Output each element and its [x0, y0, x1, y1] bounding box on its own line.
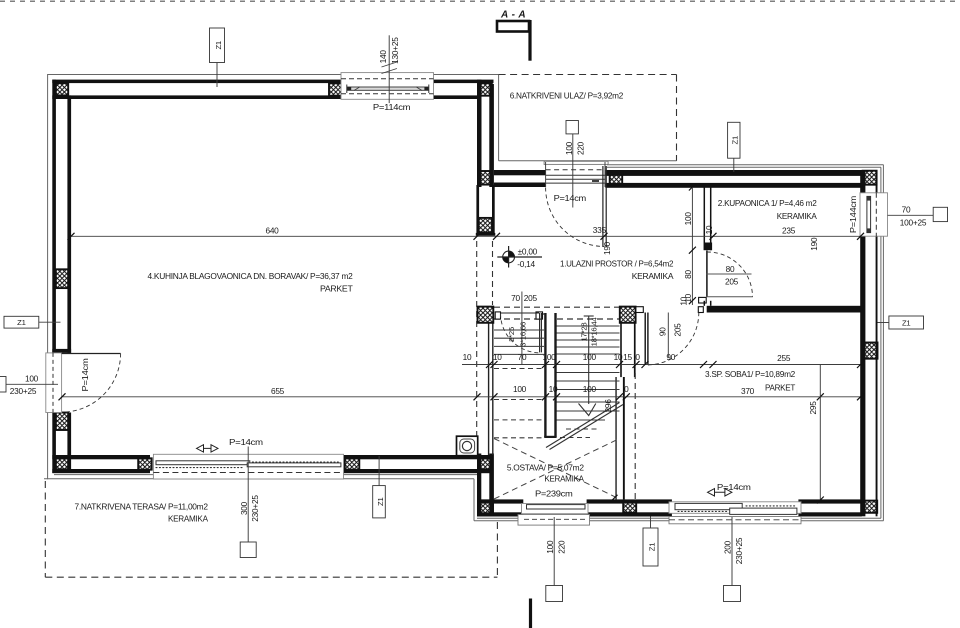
svg-text:205: 205: [673, 323, 683, 337]
svg-text:235: 235: [782, 226, 796, 236]
svg-text:80: 80: [683, 270, 693, 279]
svg-text:6.NATKRIVENI ULAZ/ P=3,92m2: 6.NATKRIVENI ULAZ/ P=3,92m2: [510, 91, 624, 101]
svg-text:100: 100: [583, 384, 597, 394]
column hall NW: [479, 171, 492, 185]
column right of entry door: [610, 171, 623, 185]
bathroom wall chain x=692.4: [691, 188, 693, 305]
svg-text:100: 100: [583, 352, 597, 362]
door 90/205 dim: [667, 313, 669, 359]
column bottom wall right of window: [345, 458, 360, 469]
svg-text:P=114cm: P=114cm: [373, 102, 410, 112]
svg-text:230+25: 230+25: [250, 495, 260, 522]
washing machine symbol: [457, 436, 478, 456]
entry marker 100/220: [566, 121, 578, 134]
column NE corner: [863, 171, 877, 185]
svg-text:295: 295: [808, 401, 818, 415]
svg-text:100: 100: [542, 352, 556, 362]
svg-text:2.KUPAONICA 1/ P=4,46 m2: 2.KUPAONICA 1/ P=4,46 m2: [718, 198, 817, 208]
right section bottom wall bottom line: [477, 512, 523, 516]
left wall cap above door: [52, 349, 71, 353]
right window 70/100+25: [888, 214, 934, 216]
column hall wall end: [479, 218, 492, 233]
column ostava SW: [478, 500, 493, 515]
dim line row A y=236.3 (640|335|235): [71, 235, 861, 237]
svg-text:15: 15: [623, 352, 632, 362]
window W3 right wall P=144: [860, 193, 888, 236]
column NE corner of living room: [479, 83, 492, 95]
column SE corner: [862, 501, 877, 513]
svg-text:100: 100: [545, 540, 555, 554]
svg-text:A - A: A - A: [500, 10, 526, 21]
dim line row C y=396.8 (655|100 10 100 0|370): [62, 396, 861, 398]
slide arrow bedroom window: [708, 489, 732, 496]
window W2 kitchen bottom sliding P=300: [153, 454, 343, 479]
svg-text:655: 655: [271, 386, 285, 396]
door D1 left wall 100/230: [46, 353, 121, 413]
svg-text:10: 10: [614, 352, 623, 362]
bedroom window 200/230+25: [731, 517, 733, 586]
svg-text:220: 220: [576, 141, 586, 155]
svg-text:-0,14: -0,14: [517, 259, 535, 269]
kitchen left wall outer line: [52, 80, 56, 353]
svg-text:205: 205: [524, 293, 538, 303]
svg-text:10: 10: [549, 384, 558, 394]
svg-text:Z1: Z1: [648, 543, 657, 551]
svg-text:Z1: Z1: [214, 41, 223, 49]
bathroom bottom wall solid: [707, 306, 861, 313]
svg-text:Z1: Z1: [17, 318, 25, 327]
column right wall bedroom: [862, 343, 877, 359]
spine solid thin lines beside stairs: [489, 323, 493, 455]
svg-text:P=14cm: P=14cm: [554, 193, 586, 203]
door D5 stair 70/205: [495, 312, 542, 353]
svg-text:5.OSTAVA/ P=5,07m2: 5.OSTAVA/ P=5,07m2: [507, 462, 584, 472]
column stair W: [478, 307, 494, 323]
svg-text:P=144cm: P=144cm: [848, 196, 858, 234]
svg-text:300: 300: [239, 501, 249, 515]
svg-text:100: 100: [25, 373, 39, 383]
column stair E / bedroom NW: [620, 307, 636, 323]
svg-text:90: 90: [658, 327, 668, 336]
svg-text:70: 70: [902, 205, 911, 215]
svg-text:P=14cm: P=14cm: [80, 358, 90, 391]
svg-text:255: 255: [777, 353, 791, 363]
column NW corner: [56, 83, 68, 95]
svg-text:PARKET: PARKET: [765, 383, 796, 393]
right outer wall inner thick line: [860, 170, 865, 193]
window W5 bedroom bottom P=200 sliding: [669, 502, 801, 524]
slide arrow kitchen window: [197, 445, 219, 452]
door D2 entry 100/220 with steps: [544, 161, 608, 247]
window W1 top kitchen P=114: [341, 73, 434, 100]
svg-text:190: 190: [602, 241, 612, 255]
svg-text:PARKET: PARKET: [320, 283, 354, 293]
level marker: [497, 246, 542, 269]
svg-text:KERAMIKA: KERAMIKA: [168, 513, 208, 523]
svg-text:10: 10: [679, 296, 689, 305]
svg-text:100: 100: [683, 212, 693, 226]
bathroom left wall: [699, 187, 711, 306]
svg-text:100: 100: [513, 384, 527, 394]
svg-text:Z1: Z1: [731, 136, 740, 144]
svg-text:Z1: Z1: [376, 497, 385, 505]
kitchen right spine wall upper solid: [477, 80, 482, 188]
right section top wall outer line: [494, 170, 546, 175]
kitchen bottom wall top line: [52, 455, 150, 459]
svg-text:18*16,44: 18*16,44: [590, 317, 599, 347]
column below left door: [56, 413, 68, 431]
kitchen bottom wall bottom line: [52, 469, 150, 473]
section mark A-A top: [497, 10, 530, 61]
svg-text:10: 10: [493, 352, 502, 362]
svg-text:3*16,66: 3*16,66: [519, 322, 528, 347]
terrace dashed boundary: [45, 481, 497, 577]
svg-text:7.NATKRIVENA TERASA/ P=11,00m2: 7.NATKRIVENA TERASA/ P=11,00m2: [75, 502, 209, 512]
svg-text:100+25: 100+25: [900, 218, 927, 228]
svg-text:KERAMIKA: KERAMIKA: [544, 474, 584, 484]
door D4 bedroom 90/205: [636, 307, 703, 365]
svg-text:KERAMIKA: KERAMIKA: [777, 211, 817, 221]
svg-text:1.ULAZNI PROSTOR / P=6,54m2: 1.ULAZNI PROSTOR / P=6,54m2: [560, 259, 674, 269]
kitchen top wall inner line: [52, 95, 341, 99]
wall under right hall column: [620, 323, 622, 377]
svg-text:P=14cm: P=14cm: [717, 482, 751, 492]
dim line row B y=364.5 (10|70|100|100|10 15 0|90|255): [462, 365, 861, 501]
section mark A-A bottom: [529, 599, 532, 628]
svg-text:P=14cm: P=14cm: [229, 437, 263, 447]
right section bottom wall top line: [477, 499, 523, 503]
svg-text:±0,00: ±0,00: [518, 247, 538, 257]
svg-text:KERAMIKA: KERAMIKA: [632, 271, 674, 281]
svg-text:17*28: 17*28: [580, 323, 589, 342]
svg-text:220: 220: [556, 540, 566, 554]
svg-text:205: 205: [725, 276, 739, 286]
svg-text:335: 335: [593, 225, 607, 235]
left door 100/230+25: [0, 377, 6, 393]
porch dashed boundary (natkriveni ulaz): [499, 75, 677, 161]
kitchen left wall inner line: [67, 95, 71, 353]
svg-text:2*25: 2*25: [507, 327, 516, 342]
svg-text:0: 0: [635, 352, 640, 362]
window 140/130+25 top dim: [388, 35, 390, 103]
svg-text:130+25: 130+25: [390, 37, 400, 64]
svg-text:190: 190: [809, 237, 819, 251]
svg-text:230+25: 230+25: [734, 537, 744, 564]
svg-text:0: 0: [624, 384, 629, 394]
column SW corner: [56, 458, 68, 469]
svg-text:Z1: Z1: [902, 319, 910, 328]
svg-text:P=239cm: P=239cm: [535, 489, 573, 499]
svg-text:10: 10: [463, 352, 472, 362]
svg-text:3.SP. SOBA1/ P=10,89m2: 3.SP. SOBA1/ P=10,89m2: [705, 369, 796, 379]
right outer wall outer line: [876, 170, 878, 193]
svg-text:80: 80: [726, 264, 735, 274]
svg-text:296: 296: [603, 399, 613, 413]
stair stringer walls: [542, 313, 557, 437]
spine wall hall-side y185-236 with column: [476, 185, 479, 233]
svg-text:100: 100: [564, 141, 574, 155]
window W4 ostava bottom P=100: [518, 504, 590, 526]
column SE corner of living room: [479, 458, 492, 469]
svg-text:4.KUHINJA BLAGOVAONICA DN. BOR: 4.KUHINJA BLAGOVAONICA DN. BORAVAK/ P=36…: [148, 271, 354, 281]
ostava window 100/220: [553, 517, 555, 586]
svg-text:140: 140: [378, 50, 388, 64]
svg-text:200: 200: [722, 540, 732, 554]
stair break diagonals: [546, 403, 623, 450]
sheet border dashed top: [0, 0, 960, 2]
spine dashed parts: [477, 241, 636, 499]
column left wall middle: [56, 269, 68, 288]
hall bottom dashed opening lines: [494, 307, 620, 319]
ostava dashed X: [494, 439, 620, 500]
right section top wall inner line: [494, 183, 546, 188]
column bedroom SW: [623, 501, 636, 513]
spine from kitchen bottom corner down to bottom wall: [477, 454, 481, 516]
svg-text:370: 370: [741, 386, 755, 396]
kitchen bottom window 300/230+25: [247, 447, 249, 543]
door D3 bathroom 80/205: [705, 243, 753, 297]
thin facade outline: [44, 75, 884, 521]
stair direction line + arrow: [579, 316, 596, 416]
svg-text:10: 10: [704, 225, 714, 234]
kitchen top wall outer line: [52, 80, 341, 84]
svg-text:70: 70: [511, 293, 520, 303]
svg-text:230+25: 230+25: [10, 386, 37, 396]
column top wall left of window: [329, 83, 342, 95]
column bottom wall left of window: [138, 458, 152, 469]
svg-text:640: 640: [265, 226, 279, 236]
